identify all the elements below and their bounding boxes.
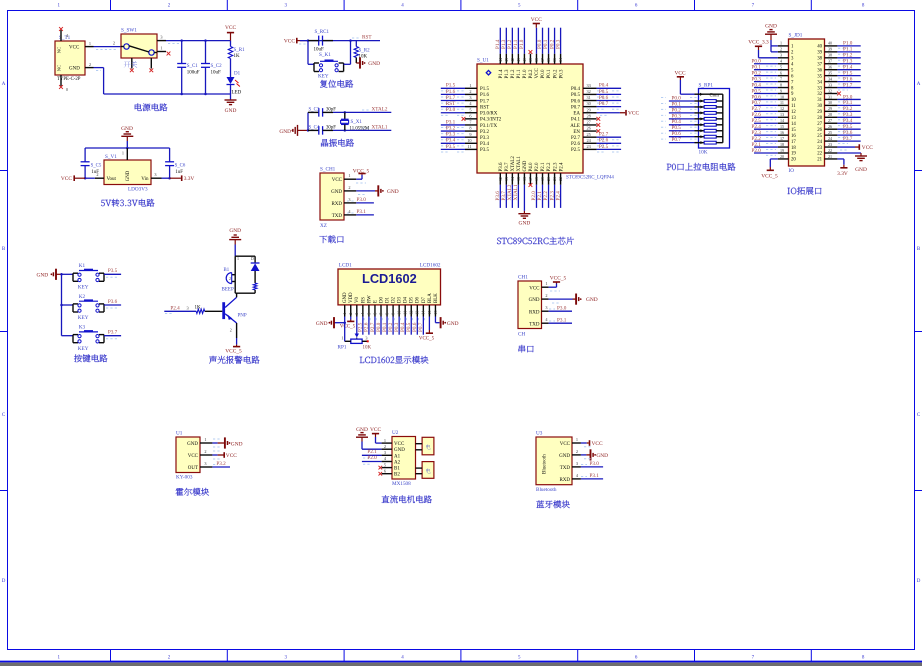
svg-text:22: 22 <box>558 177 563 181</box>
svg-text:23: 23 <box>828 142 832 147</box>
svg-text:VCC_5: VCC_5 <box>353 168 370 174</box>
svg-text:28: 28 <box>828 112 832 117</box>
ground GND JD1 top <box>765 24 778 52</box>
svg-text:39: 39 <box>828 47 832 52</box>
diode D2 with resistor in alarm <box>235 256 259 293</box>
title LCD1602 module <box>360 356 429 364</box>
svg-text:15: 15 <box>780 124 784 129</box>
power port VCC_5 alarm <box>225 338 242 355</box>
svg-text:S_JD1: S_JD1 <box>789 33 803 39</box>
svg-text:P2.1: P2.1 <box>541 162 546 172</box>
ground GND keys <box>37 269 62 280</box>
JD1 left pin 10 <box>752 94 797 103</box>
chip left pin 10 P3.4 <box>441 138 490 147</box>
svg-text:P1.3: P1.3 <box>505 69 510 79</box>
wire net P3.0 download <box>347 197 374 203</box>
LCD pin 16 BLK <box>433 293 439 317</box>
svg-text:S_X1: S_X1 <box>351 120 363 125</box>
ground GND download <box>356 185 398 196</box>
JD1 left pin 9 <box>752 88 795 97</box>
svg-text:S_U1: S_U1 <box>477 58 489 64</box>
svg-text:3: 3 <box>187 305 189 310</box>
U2 pin 6 <box>382 468 392 473</box>
svg-text:B1: B1 <box>394 467 400 472</box>
svg-text:1: 1 <box>122 151 124 156</box>
svg-text:12: 12 <box>791 110 796 115</box>
svg-text:17: 17 <box>528 177 533 181</box>
svg-text:VDD: VDD <box>349 292 354 303</box>
svg-text:A: A <box>917 82 921 87</box>
JD1 left pin 19 <box>752 148 797 157</box>
svg-text:PNP: PNP <box>238 314 247 319</box>
svg-text:LDO3V3: LDO3V3 <box>128 187 148 193</box>
chip top pin 40 P1.0 <box>519 28 528 79</box>
svg-text:43: 43 <box>504 58 509 62</box>
JD1 right pin 32 <box>817 88 837 97</box>
title crystal circuit <box>321 139 354 147</box>
svg-text:VCC: VCC <box>370 427 381 433</box>
switch label KaiGuan <box>124 61 137 67</box>
LCD pin 2 VDD <box>348 292 354 317</box>
title download port <box>319 235 343 243</box>
svg-text:16: 16 <box>791 134 796 139</box>
svg-text:33: 33 <box>817 86 822 91</box>
JD1 right pin 31 <box>817 94 860 103</box>
chip right pin 30 P0.7 <box>571 101 621 110</box>
JD1 right pin 25 <box>817 130 860 139</box>
svg-text:24: 24 <box>828 136 832 141</box>
svg-text:40: 40 <box>828 41 832 46</box>
power port VCC chip top <box>531 17 542 28</box>
svg-text:33: 33 <box>587 83 591 88</box>
svg-text:P3.2: P3.2 <box>446 125 456 131</box>
svg-text:S_RC1: S_RC1 <box>315 30 330 35</box>
svg-text:2: 2 <box>229 276 231 281</box>
wire net P3.1 download <box>347 209 374 215</box>
svg-text:39: 39 <box>528 58 533 62</box>
svg-text:29: 29 <box>587 107 591 112</box>
svg-text:20: 20 <box>546 177 551 181</box>
chip top pin 41 P1.1 <box>513 28 522 79</box>
JD1 right pin 38 <box>817 53 860 62</box>
svg-text:D: D <box>2 579 6 584</box>
svg-text:41: 41 <box>516 58 521 62</box>
JD1 right pin 29 <box>817 106 860 115</box>
JD1 right pin 27 <box>817 118 860 127</box>
chip right pin 24 P2.6 <box>571 138 621 147</box>
svg-text:VCC: VCC <box>69 45 80 50</box>
svg-text:A: A <box>2 82 6 87</box>
svg-text:VCC: VCC <box>332 178 343 183</box>
svg-text:4: 4 <box>360 313 365 315</box>
svg-text:K1: K1 <box>79 263 86 269</box>
svg-text:GND: GND <box>231 441 243 447</box>
svg-text:9: 9 <box>469 132 471 137</box>
chip right pin 29 EA <box>573 107 639 116</box>
svg-text:D7: D7 <box>422 296 427 303</box>
capacitor S_C5 1uF <box>81 162 102 178</box>
svg-text:GND: GND <box>559 454 570 459</box>
svg-text:S_C1: S_C1 <box>187 64 199 69</box>
chip left pin 7 P3.1/TX <box>441 119 498 128</box>
LCD pin 4 RS <box>358 297 367 335</box>
JD1 left pin 18 <box>752 142 797 151</box>
chip bottom pin 22 P2.4 <box>555 162 564 208</box>
chip bottom pin 14 XTAL2 <box>507 156 516 208</box>
svg-text:XTAL1: XTAL1 <box>372 125 388 131</box>
svg-text:P1.5: P1.5 <box>446 83 456 89</box>
svg-text:KEY: KEY <box>78 284 89 290</box>
svg-text:11: 11 <box>780 100 784 105</box>
svg-text:S_V1: S_V1 <box>105 154 117 160</box>
chip right pin 31 P0.6 <box>571 95 621 104</box>
svg-text:3: 3 <box>576 461 578 466</box>
JD1 left pin 4 <box>752 59 795 68</box>
svg-text:P4.3/INT2: P4.3/INT2 <box>480 118 502 123</box>
chip top pin 37 P0.0 <box>537 28 546 79</box>
JD1 left pin 12 <box>752 106 797 115</box>
svg-text:P2.6: P2.6 <box>571 142 581 147</box>
wire net P3.0 bluetooth <box>581 461 603 467</box>
U2 pin 4 <box>382 456 392 461</box>
svg-text:12: 12 <box>498 177 503 181</box>
svg-text:GND: GND <box>586 297 598 303</box>
svg-text:5: 5 <box>384 462 386 467</box>
wire net P3.6 <box>104 299 121 308</box>
svg-text:S_C2: S_C2 <box>211 64 223 69</box>
svg-text:VCC: VCC <box>560 442 571 447</box>
svg-text:K3: K3 <box>79 325 86 331</box>
connector S_JD1 body <box>789 33 825 174</box>
svg-text:7: 7 <box>378 313 383 315</box>
svg-text:IO: IO <box>789 168 795 174</box>
svg-text:Bluetooth: Bluetooth <box>543 454 548 474</box>
svg-text:P2.5: P2.5 <box>599 144 609 150</box>
JD1 left pin 8 <box>752 82 795 91</box>
svg-text:2: 2 <box>348 185 350 190</box>
svg-text:P0.6: P0.6 <box>571 99 581 104</box>
capacitor S_RC1 10uF <box>308 30 333 53</box>
title dc motor circuit <box>382 495 432 503</box>
svg-text:Bluetooth: Bluetooth <box>536 487 557 493</box>
crystal S_X1 11.0592M <box>341 112 370 131</box>
svg-text:34: 34 <box>828 76 832 81</box>
svg-text:VCC: VCC <box>628 111 639 117</box>
svg-text:29: 29 <box>817 110 822 115</box>
svg-text:LED: LED <box>232 91 242 96</box>
title alarm circuit <box>209 356 259 364</box>
svg-text:GND: GND <box>343 292 348 303</box>
svg-text:P3.2: P3.2 <box>216 461 226 467</box>
svg-text:31: 31 <box>587 95 591 100</box>
chip right pin 25 P2.7 <box>571 132 621 141</box>
svg-text:GND: GND <box>225 108 237 114</box>
svg-text:RST: RST <box>362 35 372 41</box>
svg-text:RXD: RXD <box>331 202 342 207</box>
svg-text:2: 2 <box>113 41 115 46</box>
svg-text:CH: CH <box>518 332 525 338</box>
power port VCC ldo input <box>61 175 95 182</box>
svg-text:P3.6: P3.6 <box>499 162 504 172</box>
svg-text:XZ: XZ <box>320 223 327 229</box>
svg-text:GND: GND <box>331 190 342 195</box>
svg-text:S_R1: S_R1 <box>234 48 246 53</box>
wire key ground bus <box>60 273 63 336</box>
svg-text:P3.2: P3.2 <box>480 130 490 135</box>
svg-text:15: 15 <box>427 311 432 315</box>
svg-text:P3.6: P3.6 <box>108 299 118 305</box>
svg-text:LCD1: LCD1 <box>339 263 352 269</box>
JD1 left pin 3 <box>778 53 794 62</box>
svg-text:11: 11 <box>403 311 408 315</box>
svg-text:2: 2 <box>545 293 547 298</box>
chip right pin 33 P0.4 <box>571 83 621 92</box>
svg-text:TXD: TXD <box>529 322 540 327</box>
svg-text:P4.0: P4.0 <box>529 162 534 172</box>
driver U2 MX1508 <box>392 430 416 487</box>
svg-text:A1: A1 <box>394 454 401 459</box>
svg-text:GND: GND <box>316 321 328 327</box>
svg-text:GND: GND <box>37 273 49 279</box>
JD1 right pin 35 <box>817 70 860 79</box>
svg-text:2: 2 <box>204 449 206 454</box>
svg-text:19: 19 <box>780 148 784 153</box>
chip top pin 43 P1.3 <box>501 28 510 79</box>
svg-text:13: 13 <box>504 177 509 181</box>
no-connect X on T1 bottom pin <box>59 85 63 89</box>
svg-text:BEEP: BEEP <box>222 288 234 293</box>
svg-text:VCC: VCC <box>394 442 405 447</box>
JD1 right pin 21 <box>817 154 837 163</box>
JD1 right pin 34 <box>817 76 860 85</box>
svg-text:31: 31 <box>828 94 832 99</box>
svg-text:Vout: Vout <box>107 177 117 182</box>
svg-text:17: 17 <box>791 140 796 145</box>
switch S_SW1 <box>113 28 166 69</box>
svg-text:P1.1: P1.1 <box>517 69 522 79</box>
svg-text:VCC_5: VCC_5 <box>550 276 567 282</box>
svg-text:VCC: VCC <box>862 145 873 151</box>
wire XTAL2 net <box>333 107 391 114</box>
chip top pin 42 P1.2 <box>507 28 516 79</box>
power port VCC_5 JD1 pin20 <box>761 159 778 180</box>
svg-text:P0.7: P0.7 <box>599 101 609 107</box>
JD1 left pin 7 <box>752 76 795 85</box>
svg-text:RW: RW <box>367 295 372 303</box>
power port VCC JD1 pin23 <box>837 144 873 151</box>
svg-text:10uF: 10uF <box>211 70 222 75</box>
svg-text:39: 39 <box>817 51 822 56</box>
svg-text:P0.5: P0.5 <box>599 89 609 95</box>
svg-text:S_C4: S_C4 <box>309 125 320 130</box>
chip left pin 4 RST <box>441 101 489 110</box>
svg-text:34: 34 <box>817 80 822 85</box>
svg-text:15: 15 <box>791 128 796 133</box>
svg-text:1: 1 <box>341 335 343 340</box>
LCD pin 12 D5 <box>406 296 415 334</box>
U2 pin 1 <box>382 438 392 443</box>
svg-text:RXD: RXD <box>559 478 570 483</box>
svg-text:VCC_5: VCC_5 <box>761 174 778 180</box>
svg-text:D5: D5 <box>410 296 415 303</box>
title bluetooth module <box>536 500 569 508</box>
svg-text:P2.7: P2.7 <box>599 132 609 138</box>
resistor pack element R1 net P0.0 <box>661 95 723 102</box>
resistor pack element R3 net P0.2 <box>661 107 723 114</box>
resistor pack element R5 net P0.4 <box>661 119 723 126</box>
title serial port <box>519 345 534 353</box>
title P0 pull-up circuit <box>667 163 736 171</box>
svg-text:LCD1602: LCD1602 <box>420 263 441 269</box>
svg-text:28: 28 <box>587 113 591 118</box>
svg-text:1: 1 <box>160 46 162 51</box>
svg-text:VCC: VCC <box>674 71 685 77</box>
svg-text:1: 1 <box>348 173 350 178</box>
ground GND ldo top <box>121 126 133 148</box>
svg-text:GND: GND <box>519 221 531 227</box>
chip bottom pin 21 P2.3 <box>549 162 558 208</box>
svg-text:3: 3 <box>545 305 547 310</box>
power port VCC_5 LCD VDD <box>340 317 356 330</box>
ground GND chip bottom <box>518 211 530 227</box>
title hall module <box>176 488 209 496</box>
power port VCC_5 serial <box>549 276 567 292</box>
svg-text:GND: GND <box>447 321 459 327</box>
svg-text:STC89C52RC_LQFP44: STC89C52RC_LQFP44 <box>566 176 614 181</box>
svg-text:RP1: RP1 <box>338 345 347 351</box>
svg-text:D4: D4 <box>404 296 409 303</box>
power port 3.3V JD1 pin21 <box>837 159 848 177</box>
chip left pin 2 P1.6 <box>441 89 490 98</box>
svg-text:U3: U3 <box>536 431 543 437</box>
svg-text:CH1: CH1 <box>518 275 528 281</box>
JD1 right pin 26 <box>817 124 860 133</box>
title IO expansion port <box>788 187 822 195</box>
svg-text:6: 6 <box>780 70 782 75</box>
power port VCC motor <box>370 427 382 443</box>
svg-text:22: 22 <box>817 152 822 157</box>
power port VCC_3.3 JD1 <box>748 39 778 57</box>
svg-text:24: 24 <box>817 140 822 145</box>
no-connect X motor B1 B2 <box>379 466 383 476</box>
svg-text:VCC: VCC <box>531 17 542 23</box>
wire ldo top rail <box>85 147 170 162</box>
svg-text:29: 29 <box>828 106 832 111</box>
svg-text:P1.2: P1.2 <box>511 69 516 79</box>
svg-text:P1.4: P1.4 <box>499 69 504 79</box>
svg-text:D6: D6 <box>416 296 421 303</box>
svg-text:P4.1: P4.1 <box>571 118 581 123</box>
JD1 left pin 20 <box>778 154 797 163</box>
LCD pin 1 GND <box>342 292 348 317</box>
connector S_CH1 download <box>320 167 356 230</box>
svg-text:27: 27 <box>828 118 832 123</box>
wire net P3.1 serial <box>549 317 572 323</box>
svg-text:P2.6: P2.6 <box>599 138 609 144</box>
JD1 left pin 17 <box>752 136 797 145</box>
potentiometer RP1 10K <box>338 317 372 351</box>
svg-text:5: 5 <box>780 65 782 70</box>
wire switch to VCC rail <box>166 39 231 43</box>
connector S_T1 TYPE-C-2P <box>55 30 94 92</box>
ground GND JD1 pin22 <box>837 153 867 173</box>
svg-text:GND: GND <box>855 167 867 173</box>
JD1 left pin 5 <box>752 65 795 74</box>
svg-text:13: 13 <box>791 116 796 121</box>
svg-text:XTAL2: XTAL2 <box>511 156 516 172</box>
svg-text:P0.7: P0.7 <box>418 322 424 332</box>
svg-text:GND: GND <box>765 24 777 30</box>
resistor pack element R7 net P0.6 <box>661 131 723 138</box>
resistor pack element R4 net P0.3 <box>661 113 723 120</box>
svg-text:BLK: BLK <box>434 293 439 303</box>
svg-text:TXD: TXD <box>332 214 343 219</box>
svg-text:GND: GND <box>387 189 399 195</box>
chip bottom pin 20 P2.2 <box>543 162 552 208</box>
svg-text:38: 38 <box>828 53 832 58</box>
capacitor S_C2 10uF <box>201 41 222 94</box>
svg-text:44: 44 <box>498 58 503 62</box>
chip top pin 39 P4.2 <box>528 50 534 78</box>
svg-text:P3.3: P3.3 <box>480 136 490 141</box>
svg-text:13: 13 <box>415 311 420 315</box>
svg-text:25: 25 <box>817 134 822 139</box>
power port VCC bluetooth <box>581 440 603 447</box>
svg-text:GND: GND <box>279 129 291 135</box>
svg-text:P3.0: P3.0 <box>357 197 367 203</box>
svg-text:37: 37 <box>540 58 545 62</box>
svg-text:S_CH1: S_CH1 <box>320 167 336 173</box>
svg-text:1K: 1K <box>194 306 201 311</box>
svg-text:D1: D1 <box>385 296 390 303</box>
svg-text:3.3V: 3.3V <box>837 171 848 177</box>
LCD pin 8 D1 <box>382 296 391 334</box>
svg-text:2: 2 <box>230 328 232 333</box>
JD1 right pin 22 <box>817 148 837 157</box>
power port VCC reset <box>284 38 308 45</box>
svg-text:TXD: TXD <box>560 466 571 471</box>
svg-text:RXD: RXD <box>529 310 540 315</box>
svg-text:VCC: VCC <box>535 68 540 79</box>
wire XTAL1 net <box>333 125 391 132</box>
svg-text:40: 40 <box>817 45 822 50</box>
JD1 right pin 33 <box>817 82 860 91</box>
svg-text:2: 2 <box>89 62 91 67</box>
svg-text:A2: A2 <box>394 460 401 465</box>
svg-text:S_K1: S_K1 <box>319 52 331 58</box>
svg-text:P3.5: P3.5 <box>108 268 118 274</box>
svg-text:32: 32 <box>817 92 822 97</box>
svg-text:28: 28 <box>817 116 822 121</box>
svg-text:26: 26 <box>817 128 822 133</box>
chip right pin 32 P0.5 <box>571 89 621 98</box>
svg-text:ALE: ALE <box>570 124 580 129</box>
JD1 left pin 1 <box>778 41 794 50</box>
JD1 right pin 40 <box>817 41 860 50</box>
svg-text:NC: NC <box>57 65 62 71</box>
svg-text:12: 12 <box>780 106 784 111</box>
svg-text:S_SW1: S_SW1 <box>121 28 137 34</box>
svg-text:P2.1: P2.1 <box>367 449 377 455</box>
no-connect X on T1 top pin <box>59 27 63 31</box>
svg-text:27: 27 <box>817 122 822 127</box>
svg-text:MX1508: MX1508 <box>392 481 411 487</box>
svg-text:18: 18 <box>780 142 784 147</box>
svg-text:19: 19 <box>791 152 796 157</box>
chip left pin 5 P3.0/RX <box>441 107 498 116</box>
svg-text:RS: RS <box>361 297 366 303</box>
ground GND alarm <box>229 228 241 256</box>
